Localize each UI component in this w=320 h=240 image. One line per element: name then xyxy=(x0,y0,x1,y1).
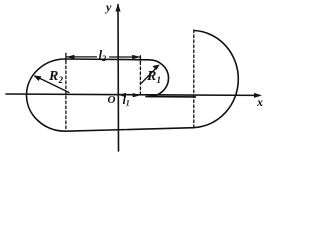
svg-text:x: x xyxy=(256,95,263,109)
solid tick above top edge at left cap center xyxy=(65,53,67,61)
svg-text:y: y xyxy=(104,0,112,14)
small right cap R1 arc xyxy=(149,60,169,97)
R2 radius arrow line xyxy=(35,76,69,93)
left cap R2 arc xyxy=(27,59,66,131)
R1 arrowhead xyxy=(153,65,160,71)
svg-text:1: 1 xyxy=(126,99,130,108)
y-axis arrowhead xyxy=(115,4,120,12)
l1 right arrowhead xyxy=(133,93,141,97)
R2 arrowhead xyxy=(34,76,42,82)
dashed diameter of big right cap xyxy=(193,30,195,128)
svg-text:2: 2 xyxy=(101,53,107,63)
l2 dimension line left segment xyxy=(67,56,97,58)
y-axis xyxy=(117,5,120,152)
R1 radius arrow line xyxy=(141,66,158,83)
small cap bottom line xyxy=(146,96,196,98)
l2 right arrowhead xyxy=(132,55,140,59)
top edge of capsule xyxy=(66,58,150,61)
big right cap arc xyxy=(194,31,239,128)
l2 left arrowhead xyxy=(67,55,75,59)
l1 left arrowhead xyxy=(119,93,127,97)
dashed line at left cap center xyxy=(65,61,67,131)
l2 dimension line right segment xyxy=(110,56,141,58)
svg-text:R: R xyxy=(48,69,58,84)
bottom edge of capsule xyxy=(66,128,194,132)
solid tick above top edge at l2 right end xyxy=(139,56,141,63)
x-axis xyxy=(6,94,259,95)
x-axis arrowhead xyxy=(254,93,262,98)
svg-text:1: 1 xyxy=(157,75,162,85)
svg-text:2: 2 xyxy=(58,75,64,85)
svg-text:R: R xyxy=(146,69,156,84)
svg-text:O: O xyxy=(108,94,116,106)
dashed line at l2 right end xyxy=(139,62,141,96)
